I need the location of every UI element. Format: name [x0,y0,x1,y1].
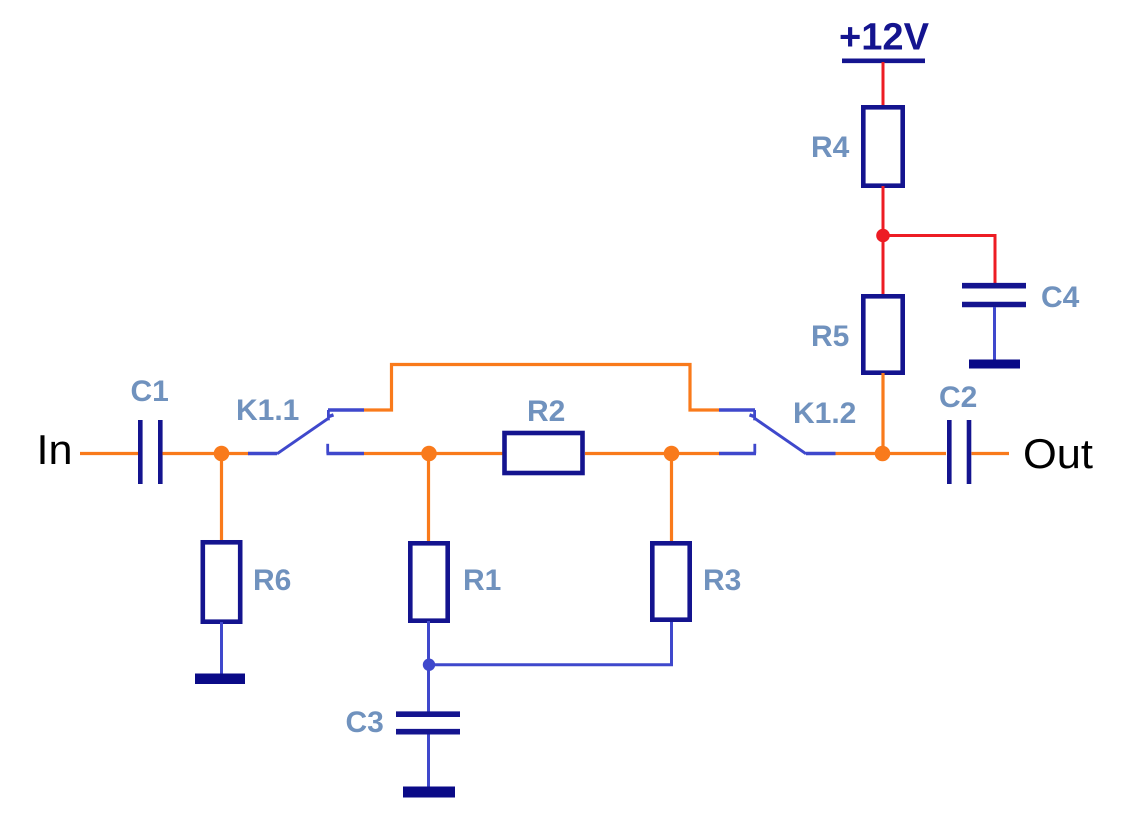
node F junction dot [423,659,435,671]
resistor R1 [410,543,447,620]
svg-text:Out: Out [1023,430,1093,477]
node E junction dot [876,229,890,243]
resistor R4 [863,107,902,185]
ground for R6 [195,674,245,685]
svg-text:K1.1: K1.1 [236,394,299,427]
svg-text:K1.2: K1.2 [793,397,856,430]
capacitor C1 [140,420,160,484]
wire R5 to node D [881,373,884,454]
svg-text:R3: R3 [703,564,741,597]
capacitor C2 [949,420,969,484]
svg-text:C1: C1 [131,375,169,408]
wire K1.1 bottom throw to node B [364,452,422,455]
wire node E to C4 [883,236,995,285]
wire node C to K1.2 bottom throw [672,452,721,455]
wire K1.2 pole to node D [836,452,877,455]
node D junction dot [875,446,891,462]
wire R2 to node C [585,452,665,455]
wire R4 to node E [882,186,885,236]
svg-text:R6: R6 [253,564,291,597]
svg-text:R1: R1 [463,564,501,597]
wire C4 to ground [993,307,996,362]
resistor R3 [652,543,689,619]
svg-text:R2: R2 [527,395,565,428]
node B junction dot [421,446,437,462]
wire node A to R6 [220,454,223,543]
svg-text:C2: C2 [939,381,977,414]
wire node C to R3 [670,454,673,544]
wire In to C1 [80,452,138,455]
svg-text:R4: R4 [811,131,850,164]
svg-text:R5: R5 [811,320,849,353]
svg-text:+12V: +12V [839,17,930,59]
wire R1 to node F [427,621,430,665]
node A junction dot [214,446,230,462]
wire node B to R1 [427,454,430,544]
svg-text:C3: C3 [346,706,384,739]
capacitor C3 [396,714,460,732]
ground for C4 [969,360,1020,369]
wire node F to R3 [429,622,672,665]
switch K1.2 [719,410,836,454]
power +12V bar [842,58,925,63]
resistor R6 [203,542,240,621]
capacitor C4 [962,286,1026,305]
svg-text:C4: C4 [1041,281,1080,314]
wire R6 to ground [220,622,223,676]
wire C2 to Out [972,452,1010,455]
resistor R5 [863,296,902,372]
wire node E to R5 [882,236,885,297]
wire K1.1 top throw bypass rail to K1.2 top throw [364,365,719,411]
resistor R2 [505,433,583,473]
node C junction dot [664,446,680,462]
switch K1.1 [248,410,364,454]
wire node A to K1.1 pole [222,452,250,455]
wire +12V to R4 [882,62,885,107]
svg-text:In: In [37,426,73,473]
wire node F to C3 [427,665,430,712]
wire C3 to ground [427,735,430,790]
wire C1 to node A [163,452,223,455]
ground for C3 [403,787,455,798]
wire node D to C2 [883,452,947,455]
wire node B to R2 [429,452,503,455]
